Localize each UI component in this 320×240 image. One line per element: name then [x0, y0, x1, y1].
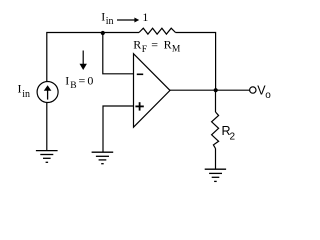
- ground (current source): [36, 151, 58, 163]
- wire: source bottom to ground: [46, 103, 48, 151]
- wire: op-amp output to Vo terminal: [170, 89, 250, 91]
- op-amp U1: [134, 54, 171, 128]
- ground (op-amp + input): [92, 152, 114, 164]
- wire: non-inverting input left and down to ground: [103, 106, 134, 152]
- label R2: [222, 124, 236, 143]
- node: junction dot at inverting input tap: [101, 31, 105, 35]
- svg-text:R: R: [164, 37, 172, 51]
- svg-text:=: =: [151, 37, 158, 51]
- svg-text:0: 0: [87, 73, 93, 87]
- wire: source top to top-left corner across to RF: [47, 33, 139, 82]
- wire: output node down to R2: [215, 90, 217, 112]
- svg-text:M: M: [172, 45, 181, 55]
- resistor RF: [139, 28, 176, 34]
- label IB = 0: [65, 73, 93, 91]
- wire: junction down and right to inverting input: [103, 33, 134, 74]
- svg-text:R: R: [133, 37, 141, 51]
- svg-text:I: I: [65, 73, 69, 87]
- current source Iin: [37, 82, 58, 103]
- svg-text:o: o: [265, 90, 271, 101]
- ground (R2): [205, 169, 226, 181]
- node: output junction dot: [214, 88, 218, 92]
- arrow: Iin current direction: [117, 18, 139, 23]
- wire: RF to top-right corner down to output node: [176, 33, 216, 91]
- svg-text:I: I: [101, 10, 105, 24]
- svg-text:=: =: [79, 73, 86, 87]
- svg-text:B: B: [70, 81, 76, 91]
- terminal Vo: [250, 87, 256, 93]
- svg-text:in: in: [106, 16, 114, 27]
- svg-text:in: in: [22, 89, 30, 100]
- svg-text:I: I: [18, 82, 22, 96]
- svg-text:1: 1: [142, 10, 148, 24]
- label Vo: [257, 83, 271, 101]
- svg-text:F: F: [142, 45, 147, 55]
- wire: R2 to ground: [215, 149, 217, 170]
- arrow: IB bias current: [80, 51, 87, 71]
- label Iin (source): [18, 82, 30, 100]
- resistor R2: [212, 112, 219, 149]
- svg-text:2: 2: [230, 131, 236, 142]
